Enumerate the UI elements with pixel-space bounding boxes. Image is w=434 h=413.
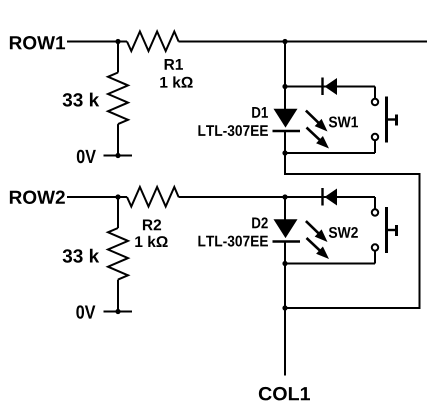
label LTL-307EE (D2) [198,236,268,247]
wire 33k row1 top lead [117,42,119,73]
wire LED D2 cathode lead [284,242,286,264]
resistor R1 [127,32,179,52]
junction node ROW2/D2 top [282,194,287,199]
LED D1 [273,109,301,131]
wire 33k row1 bottom lead [117,124,119,155]
label R2 value 1 kOhm [135,236,167,247]
junction node ROW1/column [282,39,287,44]
LED D1 light arrow 1 [306,111,328,132]
wire ROW1 right segment [179,41,428,43]
LED D2 [273,219,301,241]
net label ROW2 [10,191,65,204]
label D1 [252,107,268,118]
label 0V (row2) [76,305,95,318]
label 33 k (row1) [63,93,100,107]
junction node ROW2/33k [115,194,120,199]
junction node D1 top [282,84,287,89]
resistor 33 k (row2) [108,228,128,280]
diode (series with SW1) [323,78,338,96]
junction node COL1/bypass [282,305,287,310]
switch SW1 plate and button [387,97,397,143]
LED D2 light arrow 1 [306,221,328,242]
switch SW2 contacts [372,209,378,250]
switch SW2 plate and button [387,207,397,253]
diode (series with SW2) [323,188,338,206]
wire D1 circuit top (to switch SW1) [285,86,375,88]
junction node ROW1/33k [115,39,120,44]
wire D2 circuit bottom (from switch SW2) [285,263,375,265]
net label ROW1 [10,36,65,49]
wire bypass from D1 bottom around to COL1 junction [285,153,420,308]
switch SW1 contacts [372,99,378,140]
wire ROW2 left segment [67,196,127,198]
LED D1 light arrow 2 [307,128,330,149]
label 33 k (row2) [63,249,100,263]
wire LED D2 anode lead [284,197,286,221]
label D2 [252,217,268,228]
label SW2 [329,227,358,238]
resistor R2 [127,187,179,207]
wire COL1 column [284,264,286,376]
junction node 0V row1 [115,153,120,158]
wire D1 circuit bottom (from switch SW1) [285,152,375,154]
wire ROW1 left segment [67,41,127,43]
net label COL1 [259,387,310,400]
wire LED D1 cathode lead [284,131,286,153]
LED D2 light arrow 2 [307,238,330,259]
junction node D2 bottom [282,261,287,266]
wire 33k row2 bottom lead [117,280,119,312]
junction node D1 bottom [282,150,287,155]
wire 33k row2 top lead [117,197,119,228]
0V terminal tick (row2) [104,311,133,313]
wire switch SW1 bottom lead [374,141,376,154]
label 0V (row1) [77,150,96,163]
wire LED D1 anode lead [284,87,286,111]
wire switch SW2 bottom lead [374,251,376,264]
wire node column ROW1 down to D1 circuit [284,42,286,87]
label LTL-307EE (D1) [198,125,268,136]
wire switch SW1 top lead [374,87,376,99]
label R2 [143,219,161,230]
label R1 [165,59,183,70]
wire ROW2 right segment to SW2 [179,196,376,198]
wire switch SW2 top lead [374,197,376,209]
label SW1 [329,116,358,127]
0V terminal tick (row1) [104,155,133,157]
junction node 0V row2 [115,309,120,314]
label R1 value 1 kOhm [160,76,192,87]
resistor 33 k (row1) [108,73,128,125]
